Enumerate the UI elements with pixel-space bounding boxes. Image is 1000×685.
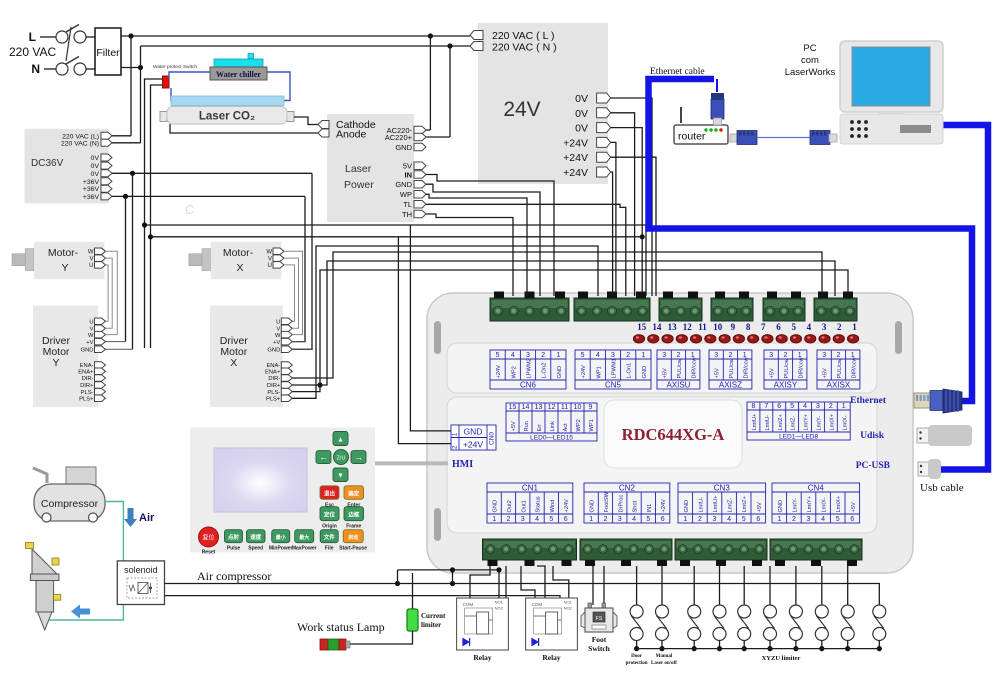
current limiter xyxy=(407,573,446,631)
laser power supply box xyxy=(327,114,414,222)
connector CN0 HMI port xyxy=(451,425,496,450)
svg-text:3: 3 xyxy=(618,516,622,523)
limit switch column 5 xyxy=(738,566,751,651)
svg-text:+24V: +24V xyxy=(564,499,570,513)
wire 24V 0V#3 down xyxy=(611,128,645,296)
wire stub to bus 1 xyxy=(397,570,399,584)
svg-text:+36V: +36V xyxy=(83,194,100,201)
svg-text:2: 2 xyxy=(829,403,833,410)
svg-text:24V: 24V xyxy=(503,98,540,121)
svg-text:WP2: WP2 xyxy=(511,366,517,378)
svg-text:Act: Act xyxy=(563,423,569,432)
mains terminal N xyxy=(31,57,86,77)
laser power tag 5V xyxy=(403,162,426,171)
svg-text:4: 4 xyxy=(807,322,812,332)
svg-text:LmtX-: LmtX- xyxy=(842,415,848,430)
usb cable blue xyxy=(941,125,988,470)
DC36V tag 0V y165.6 xyxy=(91,162,112,170)
router xyxy=(674,107,728,144)
svg-text:+5V: +5V xyxy=(715,368,721,378)
wire L to laser power AC220- xyxy=(426,36,430,130)
wire driver Y GND xyxy=(106,348,133,350)
svg-text:Anode: Anode xyxy=(336,129,367,141)
connector CN1 xyxy=(487,483,573,523)
svg-text:3: 3 xyxy=(822,352,826,359)
svg-text:0V: 0V xyxy=(91,171,100,178)
svg-text:NO1: NO1 xyxy=(564,600,573,605)
svg-text:LmtY+: LmtY+ xyxy=(807,495,813,512)
laser power tag AC220+ xyxy=(385,133,426,142)
terminal block bottom B3 xyxy=(675,539,767,566)
svg-text:0V: 0V xyxy=(91,163,100,170)
switch common bus xyxy=(637,648,880,650)
svg-text:6: 6 xyxy=(564,516,568,523)
svg-text:NO2: NO2 xyxy=(495,606,504,611)
svg-text:LmtZ-: LmtZ- xyxy=(728,498,734,513)
wire 24V +24V#1 down xyxy=(611,142,616,296)
status LEDs red row xyxy=(633,335,858,343)
svg-text:U: U xyxy=(89,263,93,269)
svg-text:LmtX+: LmtX+ xyxy=(836,495,842,512)
svg-text:13: 13 xyxy=(668,322,678,332)
svg-text:W: W xyxy=(266,250,272,256)
laser power tag GND xyxy=(395,180,426,189)
svg-text:7: 7 xyxy=(761,322,766,332)
svg-text:确定: 确定 xyxy=(348,489,360,497)
laser power tag IN xyxy=(405,170,427,179)
svg-text:2: 2 xyxy=(676,352,680,359)
svg-text:LmtY+: LmtY+ xyxy=(804,413,810,430)
wire WP to T1 xyxy=(426,194,527,296)
svg-text:GND: GND xyxy=(395,180,412,189)
svg-text:protection: protection xyxy=(626,661,648,666)
limit switch column 7 xyxy=(789,566,802,651)
svg-text:ENA+: ENA+ xyxy=(78,370,94,376)
svg-text:LmtZ-: LmtZ- xyxy=(791,416,797,431)
HMI button MinPower xyxy=(272,530,290,543)
svg-text:1: 1 xyxy=(852,322,857,332)
svg-text:GND: GND xyxy=(464,427,483,437)
svg-text:GND: GND xyxy=(642,366,648,379)
limit switch column 8 xyxy=(815,566,828,651)
svg-text:LmtU+: LmtU+ xyxy=(752,413,758,431)
ethernet cable blue xyxy=(649,79,973,401)
HMI button Esc xyxy=(320,486,339,500)
svg-text:LED1—LED8: LED1—LED8 xyxy=(779,434,818,441)
svg-text:PUL/cw: PUL/cw xyxy=(677,358,683,378)
svg-text:Relay: Relay xyxy=(473,653,492,662)
svg-text:WP: WP xyxy=(400,190,412,199)
svg-text:2: 2 xyxy=(836,352,840,359)
svg-text:5: 5 xyxy=(836,516,840,523)
svg-text:6: 6 xyxy=(777,403,781,410)
svg-text:Ethernet: Ethernet xyxy=(850,396,887,406)
DC36V tag 220 VAC (N) y142.8 xyxy=(61,139,112,147)
wire water protect to corner F xyxy=(145,79,163,348)
laser head body xyxy=(30,574,60,630)
PC RJ45 plug xyxy=(810,131,837,145)
svg-text:▼: ▼ xyxy=(337,473,344,480)
svg-text:PC-USB: PC-USB xyxy=(856,461,891,471)
svg-text:DIR/ccw: DIR/ccw xyxy=(691,356,697,378)
svg-text:PUL/cw: PUL/cw xyxy=(729,358,735,378)
svg-text:+5V: +5V xyxy=(757,502,763,512)
ethernet patch wire xyxy=(757,137,810,139)
svg-text:6: 6 xyxy=(776,322,781,332)
svg-text:CN3: CN3 xyxy=(714,484,731,493)
svg-text:220 VAC: 220 VAC xyxy=(9,45,56,59)
laser power tag TH xyxy=(402,210,426,219)
wire X DIR- to AXISX xyxy=(292,252,822,378)
svg-text:LmtZ+: LmtZ+ xyxy=(742,496,748,513)
wire driver Y +V xyxy=(106,341,126,343)
svg-text:GND: GND xyxy=(395,143,412,152)
solenoid valve xyxy=(117,561,164,605)
svg-text:CN0: CN0 xyxy=(489,432,496,445)
svg-text:DIR-: DIR- xyxy=(268,376,280,382)
controller inner panel lower xyxy=(447,397,877,533)
svg-text:+24V: +24V xyxy=(563,167,588,179)
svg-text:Y: Y xyxy=(61,262,68,274)
svg-text:+24V: +24V xyxy=(496,365,502,379)
svg-text:DIR-: DIR- xyxy=(82,376,94,382)
svg-text:Relay: Relay xyxy=(542,653,561,662)
wire B1 to relay2 c xyxy=(553,566,569,598)
relay RL1 xyxy=(457,598,509,662)
svg-text:4: 4 xyxy=(803,403,807,410)
svg-text:DIR+: DIR+ xyxy=(80,383,94,389)
svg-text:Shot: Shot xyxy=(633,500,639,512)
HMI arrow pad xyxy=(316,432,366,482)
mains terminal L xyxy=(29,25,86,45)
svg-text:RDC644XG-A: RDC644XG-A xyxy=(622,425,725,444)
connector CN4 xyxy=(772,483,860,523)
svg-text:12: 12 xyxy=(683,322,693,332)
wire net G to T2 and CN0 xyxy=(148,234,642,443)
svg-text:文件: 文件 xyxy=(324,533,336,541)
svg-text:4: 4 xyxy=(596,352,600,359)
label door protection xyxy=(626,654,648,666)
svg-text:GND: GND xyxy=(557,366,563,379)
svg-text:X: X xyxy=(230,357,237,369)
svg-text:L-On2: L-On2 xyxy=(542,363,548,379)
wire water protect to corner G xyxy=(151,85,163,348)
wire solenoid lower to relay2 xyxy=(165,596,561,598)
svg-text:LmtU+: LmtU+ xyxy=(713,495,719,513)
controller center name panel xyxy=(604,400,742,468)
svg-text:W: W xyxy=(88,333,94,339)
24V output tag 0V #2 xyxy=(575,108,610,120)
svg-text:3: 3 xyxy=(521,516,525,523)
limit switch column 9 xyxy=(841,566,854,651)
svg-text:4: 4 xyxy=(727,516,731,523)
svg-text:LmtX-: LmtX- xyxy=(822,497,828,512)
svg-text:2: 2 xyxy=(698,516,702,523)
svg-text:1: 1 xyxy=(641,352,645,359)
svg-text:File: File xyxy=(325,546,334,552)
svg-text:←: ← xyxy=(319,452,328,462)
svg-text:Work status Lamp: Work status Lamp xyxy=(297,620,385,634)
svg-text:Out2: Out2 xyxy=(507,500,513,512)
laser power tag GND xyxy=(395,143,426,152)
svg-text:2: 2 xyxy=(506,516,510,523)
svg-text:+36V: +36V xyxy=(83,186,100,193)
svg-text:+24V: +24V xyxy=(563,137,588,149)
svg-text:Speed: Speed xyxy=(248,546,263,552)
svg-text:Out1: Out1 xyxy=(521,500,527,512)
svg-text:Start-Pause: Start-Pause xyxy=(339,546,367,552)
laser head mirror mount xyxy=(26,543,60,575)
HMI button File xyxy=(320,530,338,543)
svg-text:Status: Status xyxy=(536,496,542,512)
laser power tag WP xyxy=(400,190,426,199)
svg-text:220 VAC (N): 220 VAC (N) xyxy=(61,140,99,147)
svg-text:复位: 复位 xyxy=(202,534,214,542)
svg-text:1: 1 xyxy=(842,403,846,410)
foot switch xyxy=(581,603,617,653)
svg-text:FootSW: FootSW xyxy=(604,491,610,512)
wire foot switch b xyxy=(603,566,605,605)
wire L filter to 24V xyxy=(121,33,470,38)
svg-text:定位: 定位 xyxy=(323,511,336,519)
HMI button Origin xyxy=(320,507,339,521)
svg-text:Reset: Reset xyxy=(202,550,216,556)
svg-text:solenoid: solenoid xyxy=(124,565,158,575)
wire 24V 0V#2 down xyxy=(611,113,635,296)
svg-text:启动: 启动 xyxy=(348,534,358,541)
svg-text:+5V: +5V xyxy=(851,502,857,512)
HMI button Start-Pause xyxy=(343,530,363,543)
svg-text:LED0—LED15: LED0—LED15 xyxy=(530,435,573,442)
svg-text:4: 4 xyxy=(535,516,539,523)
svg-text:边框: 边框 xyxy=(347,511,360,519)
svg-text:COM: COM xyxy=(532,602,543,607)
terminal block top T5 xyxy=(763,292,805,322)
svg-text:5: 5 xyxy=(742,516,746,523)
svg-text:Laser on/off: Laser on/off xyxy=(651,661,677,666)
svg-text:AXISX: AXISX xyxy=(827,381,851,390)
svg-text:最小: 最小 xyxy=(276,534,286,541)
svg-text:CN6: CN6 xyxy=(520,381,537,390)
svg-text:→: → xyxy=(354,452,363,462)
limit switch column 3 xyxy=(688,566,701,651)
svg-text:5V: 5V xyxy=(403,162,412,171)
svg-text:0V: 0V xyxy=(575,123,588,135)
svg-text:3: 3 xyxy=(822,322,827,332)
limit switch column 6 xyxy=(764,566,777,651)
svg-text:Motor-: Motor- xyxy=(223,247,254,259)
svg-text:5: 5 xyxy=(790,403,794,410)
svg-text:U: U xyxy=(89,320,93,326)
svg-text:Air: Air xyxy=(139,512,155,524)
svg-text:Laser: Laser xyxy=(345,163,372,175)
svg-text:DIR+: DIR+ xyxy=(267,383,281,389)
svg-text:PC: PC xyxy=(803,43,816,54)
svg-text:Motor-: Motor- xyxy=(48,247,79,259)
svg-text:LPWM1: LPWM1 xyxy=(612,358,618,378)
svg-text:DIR/ccw: DIR/ccw xyxy=(851,356,857,378)
svg-text:3: 3 xyxy=(713,516,717,523)
svg-text:CN1: CN1 xyxy=(522,484,539,493)
24V power supply box xyxy=(478,23,608,184)
wire B1 to relay2 b xyxy=(537,566,545,598)
svg-text:11: 11 xyxy=(698,322,707,332)
terminal block bottom B4 xyxy=(770,539,862,566)
filter FL1 xyxy=(86,28,121,75)
controller inner panel upper xyxy=(447,343,877,393)
svg-text:DIR/ccw: DIR/ccw xyxy=(743,356,749,378)
wire lamp to limiter xyxy=(350,631,413,644)
svg-text:V: V xyxy=(276,327,280,333)
svg-text:Current: Current xyxy=(421,612,446,620)
HMI button MaxPower xyxy=(295,530,314,543)
svg-text:3: 3 xyxy=(611,352,615,359)
svg-text:LmtU-: LmtU- xyxy=(765,415,771,431)
wire DC36V +36V to drivers +V xyxy=(112,194,305,342)
svg-text:PLS+: PLS+ xyxy=(266,397,281,403)
svg-text:W: W xyxy=(88,250,94,256)
svg-text:退出: 退出 xyxy=(324,489,336,497)
ethernet RJ45 connector at controller xyxy=(914,389,962,413)
HMI cable to controller xyxy=(375,461,448,465)
terminal block top T3 xyxy=(659,292,702,322)
terminal block bottom B2 xyxy=(580,539,672,566)
svg-text:LmtZ+: LmtZ+ xyxy=(778,414,784,431)
svg-text:2: 2 xyxy=(541,352,545,359)
svg-text:PLS-: PLS- xyxy=(81,390,94,396)
air hose head to solenoid xyxy=(49,605,123,621)
svg-text:+5V: +5V xyxy=(770,368,776,378)
svg-text:Usb cable: Usb cable xyxy=(920,482,964,494)
svg-text:PLS-: PLS- xyxy=(267,390,280,396)
connector CN6 xyxy=(490,350,566,390)
24V input tag N xyxy=(470,42,557,54)
svg-text:Manual: Manual xyxy=(656,654,673,659)
svg-text:COM: COM xyxy=(463,602,474,607)
svg-text:4: 4 xyxy=(511,352,515,359)
svg-text:Udisk: Udisk xyxy=(860,431,884,441)
HMI button Reset xyxy=(199,527,219,556)
svg-text:最大: 最大 xyxy=(299,534,309,541)
wire relay feed bus xyxy=(398,567,502,598)
svg-text:1: 1 xyxy=(683,516,687,523)
svg-text:V: V xyxy=(89,256,93,262)
svg-text:LaserWorks: LaserWorks xyxy=(785,67,836,78)
limit switch column 4 xyxy=(713,566,726,651)
svg-text:2: 2 xyxy=(626,352,630,359)
svg-text:+V: +V xyxy=(273,340,280,346)
terminal block top T6 xyxy=(814,292,857,322)
svg-text:Filter: Filter xyxy=(96,47,120,59)
svg-text:Frame: Frame xyxy=(346,524,361,530)
svg-text:LmtY-: LmtY- xyxy=(792,498,798,513)
PC monitor xyxy=(840,41,943,120)
svg-text:ENA+: ENA+ xyxy=(265,370,281,376)
HMI button Pulse xyxy=(225,530,243,543)
svg-text:8: 8 xyxy=(751,403,755,410)
svg-text:12: 12 xyxy=(548,404,556,411)
wire X PLS+ to T2 xyxy=(292,246,598,398)
terminal block top T1 xyxy=(490,292,569,322)
wire TH to T1 xyxy=(426,214,513,296)
wire anode to tube left end xyxy=(170,124,324,133)
chiller water hose blue loop xyxy=(169,72,290,101)
svg-text:GND: GND xyxy=(267,348,280,354)
svg-text:MinPower: MinPower xyxy=(269,546,293,552)
DC36V tag 0V y157.5 xyxy=(91,154,112,162)
svg-text:Water protect Switch: Water protect Switch xyxy=(153,64,197,70)
svg-text:10: 10 xyxy=(574,404,582,411)
svg-text:+24V: +24V xyxy=(463,440,483,450)
svg-text:L-On1: L-On1 xyxy=(627,363,633,379)
svg-text:3: 3 xyxy=(526,352,530,359)
DC36V tag 220 VAC (L) y135.8 xyxy=(62,132,112,140)
svg-text:1: 1 xyxy=(777,516,781,523)
svg-text:Run: Run xyxy=(524,421,530,431)
wire L to DC36V input xyxy=(112,36,131,136)
svg-text:2: 2 xyxy=(783,352,787,359)
svg-text:3: 3 xyxy=(662,352,666,359)
svg-text:▲: ▲ xyxy=(337,436,344,443)
DC36V tag +36V y188.7 xyxy=(83,185,112,193)
svg-text:+24V: +24V xyxy=(581,365,587,379)
svg-text:+5V: +5V xyxy=(823,368,829,378)
svg-text:6: 6 xyxy=(850,516,854,523)
svg-text:+5V: +5V xyxy=(663,368,669,378)
svg-text:220 VAC (L): 220 VAC (L) xyxy=(62,133,99,140)
wire B1 to relay1 b xyxy=(505,566,507,598)
svg-text:PUL/cw: PUL/cw xyxy=(784,358,790,378)
svg-text:CN5: CN5 xyxy=(605,381,622,390)
svg-text:Compressor: Compressor xyxy=(41,498,99,510)
svg-text:Laser CO₂: Laser CO₂ xyxy=(199,111,255,123)
laser power tag TL xyxy=(403,200,426,209)
svg-text:Air compressor: Air compressor xyxy=(197,569,271,583)
svg-text:AXISZ: AXISZ xyxy=(719,381,742,390)
24V output tag +24V #6 xyxy=(563,167,610,179)
svg-text:WP1: WP1 xyxy=(589,419,595,431)
wire DC36V 0V to drivers GND xyxy=(112,171,312,350)
svg-text:Err: Err xyxy=(537,424,543,432)
indicator table LED0-LED15 xyxy=(506,403,597,442)
svg-text:U: U xyxy=(276,320,280,326)
svg-text:limiter: limiter xyxy=(421,621,441,629)
svg-text:LmtY-: LmtY- xyxy=(816,416,822,431)
DC36V tag 0V y173.3 xyxy=(91,170,112,178)
wire X DIR+ to AXISX xyxy=(292,261,835,388)
svg-text:+24V: +24V xyxy=(563,152,588,164)
svg-text:4: 4 xyxy=(821,516,825,523)
24V output tag +24V #4 xyxy=(563,137,610,149)
ethernet stub to router plug xyxy=(716,79,718,92)
connector CN2 xyxy=(584,483,670,523)
svg-text:6: 6 xyxy=(661,516,665,523)
driver motor Y xyxy=(33,306,106,408)
svg-text:U: U xyxy=(268,263,272,269)
svg-text:ENA-: ENA- xyxy=(80,363,94,369)
wire 24V 0V#1 down xyxy=(611,98,652,296)
svg-text:5: 5 xyxy=(581,352,585,359)
svg-text:+5V: +5V xyxy=(511,421,517,431)
svg-text:Power: Power xyxy=(344,179,374,191)
svg-text:V: V xyxy=(268,256,272,262)
svg-text:Z/U: Z/U xyxy=(337,456,346,462)
wire IN to T1 xyxy=(426,175,554,297)
svg-text:220 VAC ( N ): 220 VAC ( N ) xyxy=(492,42,557,54)
air hose compressor to solenoid xyxy=(105,502,123,561)
connector AXISZ xyxy=(709,350,752,390)
svg-text:PUL/cw: PUL/cw xyxy=(837,358,843,378)
